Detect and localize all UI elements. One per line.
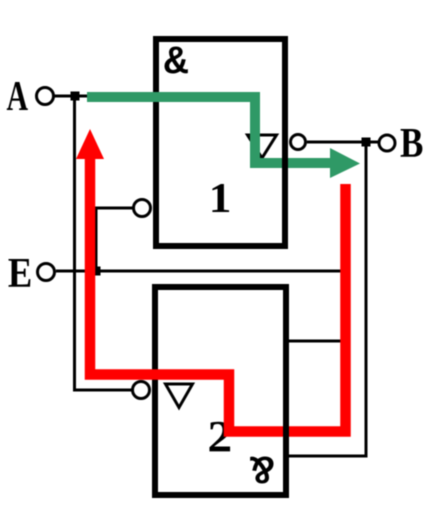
svg-text:A: A [7,73,29,119]
svg-text:B: B [400,121,423,167]
svg-text:1: 1 [209,175,232,221]
svg-text:&: & [250,444,274,489]
svg-text:&: & [164,41,188,86]
svg-text:E: E [8,250,32,297]
